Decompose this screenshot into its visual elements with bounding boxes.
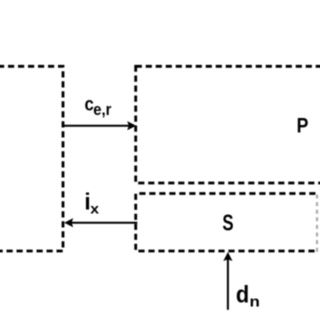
block S (sensor): [136, 194, 316, 252]
wire i_x : arrow from S back into left block: [64, 218, 137, 227]
svg-text:x: x: [90, 201, 99, 217]
svg-text:e,r: e,r: [93, 101, 111, 119]
svg-text:c: c: [85, 92, 94, 115]
wire d_n : disturbance arrow entering S from below: [223, 252, 232, 310]
svg-text:d: d: [236, 281, 249, 308]
left block (controller, cropped at image left edge): [0, 66, 63, 251]
block S right edge (gray, cropped): [316, 195, 318, 253]
svg-text:S: S: [222, 211, 233, 236]
wire c_e,r : arrow from left block into P: [63, 121, 137, 130]
svg-text:P: P: [297, 114, 309, 138]
block P (plant, cropped at image right edge): [136, 66, 320, 183]
svg-text:n: n: [250, 294, 260, 310]
